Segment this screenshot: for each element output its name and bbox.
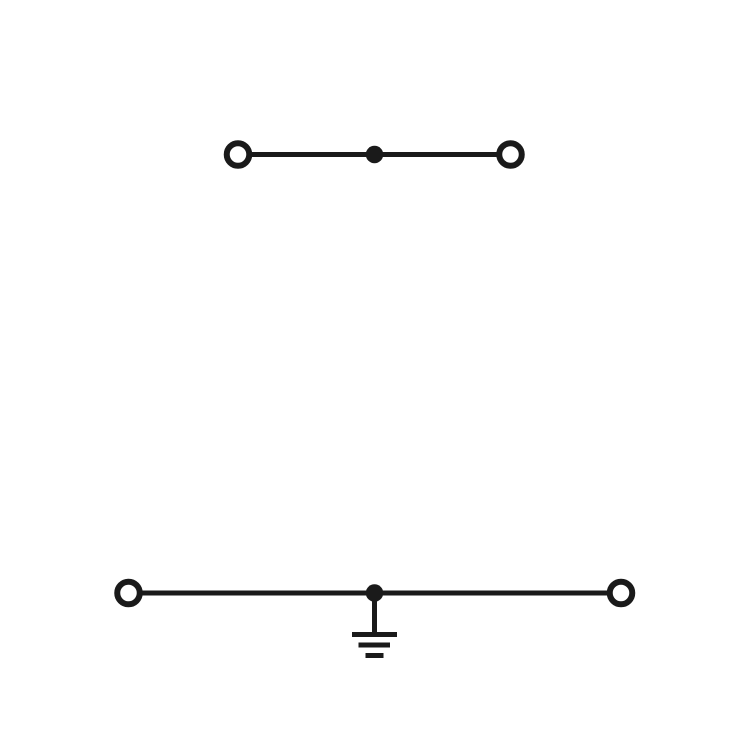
node junction lower: [366, 584, 384, 602]
wire ground stem: [372, 593, 377, 635]
ground: [352, 635, 397, 656]
terminal lower right: [610, 582, 633, 605]
terminal upper left: [227, 143, 250, 166]
wire lower level: [129, 591, 622, 596]
wire upper level: [238, 152, 510, 157]
terminal upper right: [499, 143, 522, 166]
node junction upper: [366, 146, 384, 164]
terminal lower left: [117, 582, 140, 605]
